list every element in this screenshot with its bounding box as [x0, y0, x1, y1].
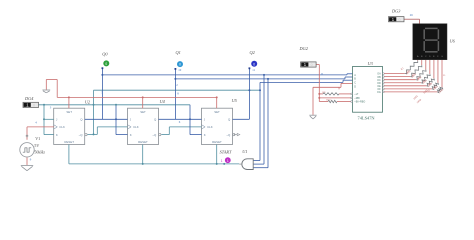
svg-text:DG4: DG4 — [24, 96, 34, 101]
svg-text:1: 1 — [221, 159, 223, 163]
svg-text:START: START — [220, 149, 232, 154]
svg-text:~BI/~RBO: ~BI/~RBO — [354, 101, 365, 104]
svg-text:CLK: CLK — [207, 125, 213, 129]
svg-text:CLK: CLK — [59, 125, 65, 129]
svg-text:0: 0 — [399, 18, 401, 22]
svg-text:5V: 5V — [34, 143, 39, 148]
svg-text:OG: OG — [377, 91, 381, 94]
svg-text:0: 0 — [33, 104, 35, 108]
svg-text:RESET: RESET — [64, 140, 74, 144]
svg-text:CLK: CLK — [133, 125, 139, 129]
svg-text:SET: SET — [140, 110, 146, 114]
svg-text:D: D — [354, 85, 356, 88]
svg-text:DG3: DG3 — [391, 9, 400, 14]
svg-text:SET: SET — [66, 110, 72, 114]
svg-text:DG2: DG2 — [299, 46, 309, 51]
svg-text:50kHz: 50kHz — [34, 149, 45, 154]
svg-text:K: K — [56, 133, 58, 137]
svg-text:0: 0 — [311, 63, 313, 67]
svg-text:Q0: Q0 — [102, 51, 108, 56]
svg-text:C: C — [354, 82, 356, 85]
svg-text:U1: U1 — [242, 149, 247, 154]
svg-text:U3: U3 — [368, 61, 373, 66]
svg-text:11: 11 — [252, 68, 255, 72]
svg-text:~RBI: ~RBI — [354, 97, 360, 100]
svg-text:0: 0 — [253, 62, 255, 66]
svg-text:SET: SET — [214, 110, 220, 114]
svg-text:Q1: Q1 — [176, 50, 181, 55]
svg-text:74LS47N: 74LS47N — [358, 116, 376, 121]
svg-text:0: 0 — [179, 63, 181, 67]
svg-text:1: 1 — [227, 159, 229, 163]
svg-text:RESET: RESET — [138, 140, 148, 144]
svg-text:RESET: RESET — [212, 140, 222, 144]
svg-text:0: 0 — [105, 62, 107, 66]
svg-text:U2: U2 — [85, 100, 91, 105]
svg-text:10: 10 — [178, 68, 182, 72]
svg-text:K: K — [204, 133, 206, 137]
svg-text:U6: U6 — [450, 39, 456, 44]
svg-text:V1: V1 — [35, 136, 40, 141]
svg-text:26: 26 — [410, 13, 414, 17]
svg-text:G: G — [441, 56, 443, 58]
svg-text:U4: U4 — [160, 99, 166, 104]
svg-text:U5: U5 — [232, 98, 238, 103]
svg-text:Q2: Q2 — [250, 50, 256, 55]
svg-text:~LT: ~LT — [354, 93, 359, 96]
svg-text:K: K — [130, 133, 132, 137]
